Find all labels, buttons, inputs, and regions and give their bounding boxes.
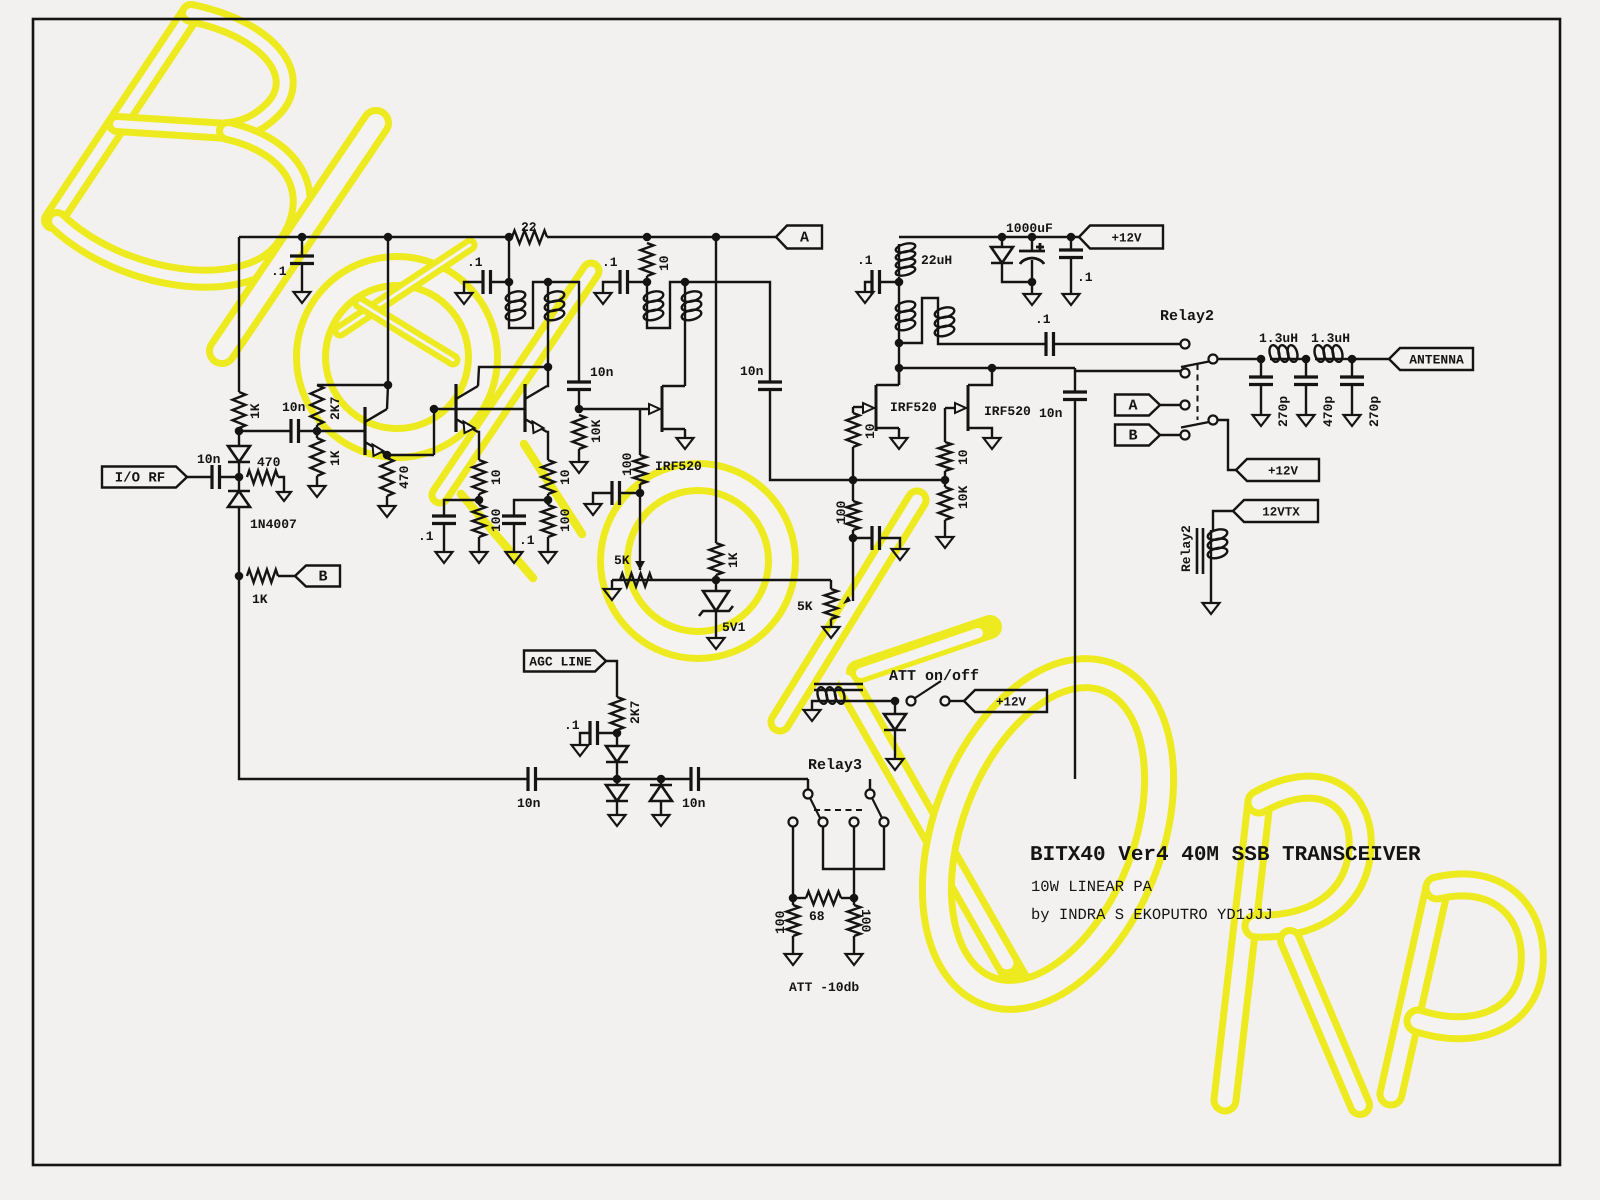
junction [505,233,514,242]
watermark letter R stem [1225,802,1259,1100]
svg-text:10n: 10n [740,364,764,379]
junction [1257,355,1266,364]
wire [938,335,1046,345]
svg-text:.1: .1 [564,718,580,733]
capacitor .1 (TX out) [1046,332,1054,356]
wire [847,501,860,530]
svg-text:12VTX: 12VTX [1262,506,1300,520]
wire [628,281,648,283]
transformer T1 primary coil [508,292,510,320]
wire [876,384,899,386]
diode (supply protection) [1001,237,1003,247]
svg-text:470: 470 [397,465,412,489]
junction [384,233,393,242]
wire [865,282,872,292]
inductor 1.3uH (LPF2) [1315,358,1342,360]
wire [1002,263,1032,282]
svg-text:1K: 1K [252,592,268,607]
wire [1213,511,1233,530]
wire [853,898,855,905]
wire [876,427,899,429]
junction [1302,355,1311,364]
capacitor .1 (PA bias bypass) [853,537,872,539]
svg-text:100: 100 [858,909,873,933]
wire [968,427,991,429]
wire [662,385,685,387]
ground (5K left) [611,580,613,589]
watermark letter K arm [858,627,990,672]
svg-text:100: 100 [834,500,849,524]
transistor Q3 [523,384,526,432]
inductor 22uH [898,244,900,275]
svg-text:ATT -10db: ATT -10db [789,980,859,995]
capacitor .1 (top-left bypass) [301,237,303,256]
resistor 1K (input shunt) [233,392,246,428]
wire: A bus to bias network [715,237,717,543]
svg-text:1K: 1K [726,552,741,568]
wire [606,661,617,697]
junction [941,476,950,485]
svg-text:10W LINEAR PA: 10W LINEAR PA [1031,878,1153,896]
wire [311,385,324,425]
transformer T1b link [647,282,685,328]
wire [278,477,284,492]
junction [544,278,553,287]
wire [1210,557,1212,604]
relay2 dashed link [1197,364,1199,420]
wire [699,778,809,780]
resistor 100 (predriver gate series) [639,409,641,455]
wire [1305,385,1307,416]
svg-text:I/O RF: I/O RF [115,471,165,487]
svg-text:ATT on/off: ATT on/off [889,668,979,685]
svg-text:10: 10 [558,469,573,485]
svg-text:5K: 5K [797,599,813,614]
wire [841,897,854,899]
resistor 1K to B flag [235,572,244,581]
wire: gate node to predriver [579,408,649,410]
flag I/O RF [102,467,187,488]
diode (limiter up) [660,779,662,785]
wire: bus to relay3 [807,779,809,789]
junction [475,496,484,505]
flag A (top bus) [776,226,822,249]
capacitor 470p [1305,359,1307,377]
capacitor .1 (AGC) [597,732,617,734]
flag ANTENNA [1389,348,1473,370]
resistor 100 (Q2 emitter) [478,500,480,505]
wire [792,936,794,954]
relay3 coil [818,700,844,702]
watermark letter O [894,641,1201,1026]
flag 12VTX [1233,500,1318,522]
wire [616,801,618,815]
junction [895,339,904,348]
resistor 10K (PA2 bias) [944,480,946,487]
diode (AGC) [606,746,628,762]
flag +12V (relay B) [1236,459,1319,481]
wire: Q2 collector [478,367,548,386]
wire [894,730,896,759]
svg-text:BITX40 Ver4 40M SSB TRANSCEIVE: BITX40 Ver4 40M SSB TRANSCEIVER [1030,844,1421,867]
wire: bus to Q1 collector [387,237,389,385]
wire [634,455,647,484]
wire [456,386,478,399]
svg-text:.1: .1 [1077,270,1093,285]
wire [316,476,318,486]
wire [660,801,662,815]
transformer T2 secondary coil [937,308,939,336]
wire [1054,343,1182,345]
wire: predriver source [684,429,686,438]
wire [915,681,941,698]
transistor PA1 IRF520 [875,385,878,431]
watermark letter B spine [53,13,191,220]
wire [434,408,525,410]
junction [613,775,622,784]
wire [898,277,900,302]
wire [1031,260,1033,294]
ground (relay2 coil) [1203,603,1220,614]
wire: bias node to 5K wiper [639,493,641,570]
wire [1342,358,1352,360]
relay2 armature [1209,355,1218,364]
svg-text:10n: 10n [517,796,541,811]
wire [578,390,580,410]
wire [1297,358,1306,360]
svg-text:A: A [1128,398,1137,415]
svg-text:10n: 10n [1039,406,1063,421]
wire: PA2 drain [991,368,992,385]
resistor 22 [512,231,547,244]
wire: coil to switch [844,700,895,702]
ground (Q3 .1) [506,552,523,563]
flag AGC LINE [524,651,606,672]
transistor predriver IRF520 [661,386,664,432]
svg-text:68: 68 [809,909,825,924]
diode (limiter down) [616,779,618,785]
ground (Q1 base divider) [309,486,326,497]
watermark letter l [222,123,376,351]
ground (limiter 1) [609,815,626,826]
resistor 10 (stage2 feed) [641,243,654,276]
svg-text:1K: 1K [248,403,263,419]
inductor 1.3uH (LPF1) [1270,358,1297,360]
transformer T1 link [509,282,548,328]
wire [662,428,685,430]
capacitor .1 (predriver bias) [620,492,641,494]
ground (damper) [887,759,904,770]
capacitor .1 (Q2 emitter bypass) [444,500,479,516]
watermark letter e bar1 [340,245,470,331]
svg-text:Relay2: Relay2 [1160,308,1214,325]
wire [603,282,620,293]
wire [365,409,387,422]
relay2 armature 2 [1209,416,1218,425]
junction [712,576,721,585]
wire [464,282,483,293]
wire [898,329,900,344]
svg-text:100: 100 [620,452,635,476]
junction [789,894,798,903]
svg-text:100: 100 [773,910,788,934]
relay2 contact B [1181,431,1190,440]
svg-text:.1: .1 [602,255,618,270]
wire: to antenna [1352,358,1389,360]
wire [525,386,547,399]
ground (att right) [846,954,863,965]
wire [247,570,278,583]
wire [365,442,387,455]
transformer T2 link [899,298,938,343]
svg-text:B: B [1128,428,1137,445]
relay2 contact B-side [1181,369,1190,378]
ground (PA bias cap) [892,549,909,560]
svg-text:270p: 270p [1367,396,1382,427]
wire [770,390,853,481]
relay3 contact TX [869,779,871,789]
junction [544,363,553,372]
wire: Q3 collector [547,367,548,386]
ground (5K PA) [830,619,832,627]
svg-text:22uH: 22uH [921,253,952,268]
watermark letter R leg [1290,940,1360,1105]
resistor 1K (Q1 base lower) [316,431,318,438]
junction [850,894,859,903]
relay3 contact RX [804,790,813,799]
wire [1181,362,1209,368]
junction [505,278,514,287]
capacitor .1 (rail) [1070,237,1072,250]
wire: PA drain bus [899,367,1075,369]
svg-text:270p: 270p [1276,396,1291,427]
wire [830,580,832,589]
transformer T1b primary coil [646,292,648,320]
wire [847,413,860,447]
resistor 100 (Q3 emitter) [547,500,549,505]
wire [578,449,580,462]
resistor 100 (att right) [848,905,861,936]
wire [547,236,776,238]
wire [220,476,240,478]
svg-text:.1: .1 [418,529,434,544]
capacitor 10n (driver coupling) [567,382,591,390]
capacitor .1 (Q3 emitter bypass) [514,500,548,516]
wire [715,611,717,638]
potentiometer 5K (driver bias) [620,574,652,587]
wire [617,778,661,780]
wire [311,438,324,476]
resistor 10K (predriver gate) [573,415,586,449]
wire: predriver drain [684,319,686,387]
wire: switch to +12V [950,700,964,702]
svg-text:5K: 5K [614,553,630,568]
svg-text:2K7: 2K7 [628,701,643,724]
svg-text:IRF520: IRF520 [655,459,702,474]
wire [513,524,515,553]
junction [988,364,997,373]
junction [891,697,900,706]
flag A (relay select) [1115,395,1160,416]
svg-text:470p: 470p [1321,396,1336,427]
relay3 blades [810,798,821,820]
wire [1070,258,1072,295]
resistor 2K7 (AGC) [611,697,624,730]
wire [616,762,618,779]
wire [491,281,510,283]
resistor 470 (input) [247,471,278,484]
svg-text:1.3uH: 1.3uH [1259,331,1298,346]
relay3 dashed link [814,809,866,811]
ground (.1 rail) [1063,294,1080,305]
svg-text:10K: 10K [589,419,604,443]
ground (relay3 coil) [812,701,818,710]
resistor 10 (PA1 gate) [852,407,854,413]
wire [646,276,648,292]
potentiometer 5K (PA bias) [825,589,838,619]
capacitor 10n (input series) [187,476,212,478]
wire: armature to LPF [1217,358,1261,360]
wire [525,419,547,432]
svg-text:10K: 10K [956,485,971,509]
ground (10K PA) [937,537,954,548]
wire [1160,404,1180,406]
junction [313,427,322,436]
wire: armature2 to +12V [1217,420,1236,470]
ground (input 470) [277,492,291,501]
capacitor 10n (antenna path) [1074,368,1076,392]
junction [1028,278,1037,287]
wire [1351,385,1353,416]
transformer T1 secondary coil [547,282,549,292]
resistor 100 (att left) [787,905,800,936]
wire [898,368,900,385]
wire: left vertical to bottom bus [239,576,528,779]
wire [616,730,618,746]
ground (Q1 emitter) [379,506,396,517]
wire: bias rail [612,579,831,581]
ground (PA2 source) [984,438,1001,449]
flag B (relay select) [1115,425,1160,446]
ground (limiter 2) [653,815,670,826]
junction [430,405,439,414]
svg-text:+12V: +12V [996,696,1027,710]
wire: bus junction to T1 [508,237,510,292]
svg-text:10: 10 [956,449,971,465]
flag +12V (rail) [1079,226,1163,249]
wire [547,319,549,368]
resistor 2K7 (Q1 feedback) [316,425,318,431]
svg-text:IRF520: IRF520 [984,404,1031,419]
wire [939,487,952,520]
wire: att leg1 [792,827,794,898]
wire: top bus to A flag [239,236,512,238]
svg-text:Relay2: Relay2 [1179,525,1194,572]
junction [643,233,652,242]
wire: 2K7 to collector node [317,384,388,386]
wire [301,264,303,293]
node dots top bus [298,233,307,242]
wire [1181,422,1209,428]
ground (270p) [1344,415,1361,426]
wire [793,897,806,899]
wire [473,505,486,537]
watermark letter K leg [850,688,1026,996]
svg-text:AGC LINE: AGC LINE [529,655,592,670]
resistor 68 [806,892,841,905]
svg-text:Relay3: Relay3 [808,757,862,774]
wire: Q2 emitter chain [478,432,479,460]
wire: PA1 gate [853,406,863,408]
wire [386,496,388,506]
wire [792,898,794,905]
watermark letter R bowl [1256,787,1360,926]
wire [715,575,717,580]
transformer T2 primary coil [898,302,900,330]
ground (predriver bias cap) [585,504,602,515]
flag B (bias line) [295,566,340,587]
watermark letter e bar2 [360,303,453,360]
watermark letter k leg [461,494,533,578]
wire: left vertical from bus [238,237,240,392]
svg-text:IRF520: IRF520 [890,400,937,415]
wire: PA2 source [991,428,992,438]
wire [852,447,854,480]
resistor 10 (Q3 emitter) [542,460,555,494]
capacitor 10n (PA gate coupling) [758,382,782,390]
resistor 470 (Q1 emitter) [381,458,394,496]
ground (Q3 100) [540,552,557,563]
wire [547,537,549,552]
junction [849,534,858,543]
wire: att crossover [823,827,884,869]
wire: att leg2 [853,827,855,898]
wire [478,537,480,552]
svg-text:A: A [800,230,809,247]
wire [853,479,945,481]
wire [238,462,240,477]
junction [657,775,666,784]
junction [235,473,244,482]
capacitor .1 (T1 bypass) [483,270,491,294]
wire [880,538,901,549]
ground (10K) [571,462,588,473]
svg-text:1.3uH: 1.3uH [1311,331,1350,346]
wire [939,442,952,471]
junction [643,278,652,287]
ground (470p) [1298,415,1315,426]
wire [1260,385,1262,416]
ground (zener) [708,638,725,649]
wire [880,281,900,283]
transistor PA2 IRF520 [967,385,970,431]
diode 1N4007 lower [238,477,240,491]
wire [547,494,549,500]
svg-text:10n: 10n [282,400,306,415]
svg-text:B: B [318,569,327,586]
capacitor .1 (T1b bypass) [620,270,628,294]
wire [944,471,946,480]
wire [478,494,480,500]
wire [944,520,946,537]
transistor Q2 [454,384,457,432]
ground (Q2 .1) [436,552,453,563]
capacitor 10n (Q1 base coupling) [239,430,291,432]
relay3 coil core [814,684,863,690]
ground (att left) [785,954,802,965]
junction [1028,233,1037,242]
svg-text:.1: .1 [271,264,287,279]
